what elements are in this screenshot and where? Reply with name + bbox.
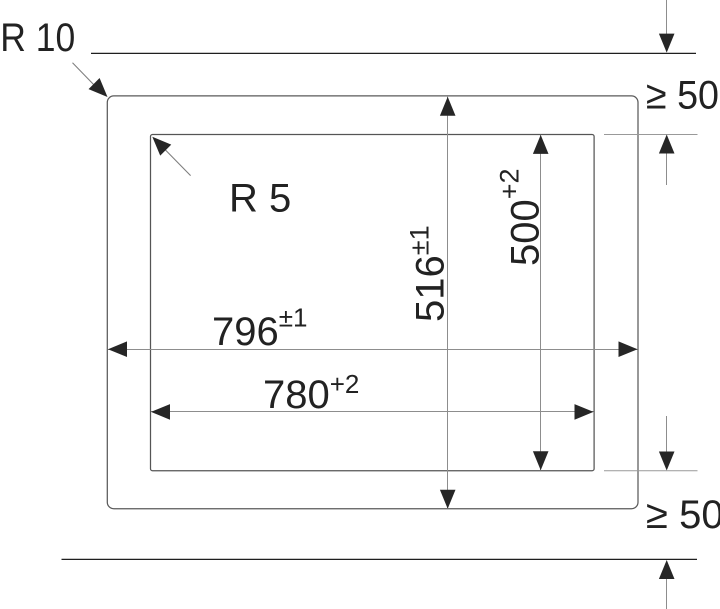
svg-text:R 5: R 5	[229, 177, 291, 221]
svg-text:500+2: 500+2	[495, 168, 548, 266]
svg-text:≥ 50: ≥ 50	[646, 493, 720, 537]
svg-text:≥ 50: ≥ 50	[646, 74, 719, 118]
svg-text:R 10: R 10	[0, 16, 75, 60]
svg-text:780+2: 780+2	[263, 369, 359, 417]
svg-text:516±1: 516±1	[404, 225, 452, 322]
svg-text:796±1: 796±1	[212, 303, 307, 355]
